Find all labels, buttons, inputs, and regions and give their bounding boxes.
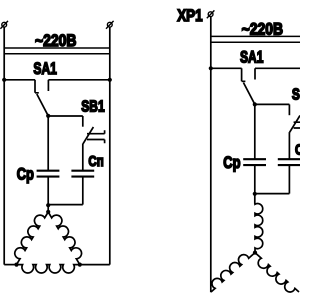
node capacitor join — [253, 192, 257, 196]
svg-text:Ср: Ср — [17, 165, 34, 184]
winding delta right side — [48, 212, 81, 265]
pushbutton SB1 blade — [83, 127, 93, 144]
pushbutton SB1 top terminal — [82, 116, 84, 127]
pushbutton SB1 actuator bracket (clipped) — [294, 122, 300, 128]
wire SA1 common to SB1 — [48, 115, 83, 117]
svg-text:SB1: SB1 — [81, 97, 104, 115]
winding delta bottom side — [17, 265, 80, 273]
connector pin (right plug terminal) — [106, 21, 114, 29]
connector pin XP1 — [207, 10, 215, 18]
switch SA1 blade — [37, 94, 48, 116]
switch SA1 right fixed contact — [254, 68, 256, 79]
pushbutton SB1 blade — [290, 116, 300, 133]
node capacitor join — [46, 203, 50, 207]
switch SA1 left fixed contact — [242, 68, 246, 81]
connector pin XS (left plug terminal) — [0, 21, 8, 29]
svg-text:Сп: Сп — [295, 141, 300, 158]
supply bus line 1 — [211, 35, 300, 37]
svg-text:SA1: SA1 — [33, 60, 56, 78]
node star point — [253, 251, 257, 255]
svg-text:Ср: Ср — [223, 153, 240, 172]
winding star right arm (clipped) — [255, 253, 299, 292]
wire SB1 to Cn top — [82, 144, 84, 171]
capacitor Cn plates (clipped) — [278, 159, 300, 165]
wire SA1 common down to Cp top — [254, 104, 256, 159]
winding delta left side — [15, 212, 48, 265]
svg-text:SB1: SB1 — [292, 85, 300, 103]
wire left rail — [3, 27, 5, 265]
capacitor Cn plates — [71, 171, 94, 177]
wire top left segment — [4, 79, 35, 81]
node right rail / top wire — [108, 78, 112, 82]
node SA1 common — [253, 102, 257, 106]
wire right rail to right vertex — [80, 264, 110, 266]
wire Cn bottom — [82, 177, 84, 205]
wire SA1 common down to Cp top — [47, 116, 49, 171]
pushbutton SB1 top terminal — [288, 104, 290, 115]
supply bus line 1 — [4, 47, 110, 49]
supply bus line 2 — [4, 53, 110, 55]
wire Cp bottom — [254, 165, 256, 194]
svg-text:ХР1: ХР1 — [177, 6, 203, 25]
svg-text:SA1: SA1 — [240, 48, 263, 66]
wire top right segment — [255, 67, 300, 69]
node delta left vertex — [14, 263, 18, 267]
supply bus line 2 — [211, 41, 300, 43]
node SA1 common — [46, 114, 50, 118]
capacitor Cp plates — [37, 171, 60, 177]
node left rail / top wire — [209, 66, 213, 70]
wire capacitor bottoms join — [48, 204, 83, 206]
winding star phase coil (vertical) — [255, 194, 263, 253]
node winding apex — [46, 210, 50, 214]
wire Cn bottom — [288, 165, 290, 194]
wire SB1 to Cn top — [288, 132, 290, 159]
wire left rail — [210, 17, 212, 293]
node left rail / top wire — [2, 78, 6, 82]
switch SA1 left fixed contact — [35, 80, 39, 93]
wire SA1 common to SB1 — [255, 103, 290, 105]
pushbutton SB1 actuator bracket — [87, 130, 105, 143]
wire right rail — [109, 27, 111, 265]
svg-text:Сп: Сп — [88, 152, 103, 169]
winding star left arm — [211, 253, 255, 292]
wire top left segment — [211, 67, 242, 69]
wire Cp bottom — [47, 177, 49, 205]
wire join to winding apex — [47, 205, 49, 212]
node delta right vertex — [78, 263, 82, 267]
wire top right segment — [48, 79, 109, 81]
wire left rail to left vertex — [4, 264, 16, 266]
switch SA1 right fixed contact — [47, 80, 49, 91]
wire capacitor bottoms join — [255, 193, 290, 195]
capacitor Cp plates — [243, 159, 266, 165]
switch SA1 blade — [243, 83, 254, 105]
